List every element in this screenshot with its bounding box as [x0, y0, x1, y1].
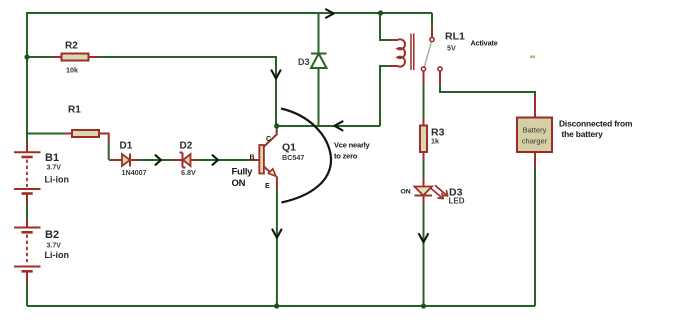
- svg-text:the battery: the battery: [562, 129, 604, 139]
- svg-text:Activate: Activate: [471, 39, 498, 48]
- svg-text:ON: ON: [401, 189, 411, 196]
- svg-text:RL1: RL1: [445, 31, 465, 43]
- svg-text:B: B: [250, 155, 255, 162]
- svg-text:1N4007: 1N4007: [122, 168, 147, 177]
- svg-text:Battery: Battery: [523, 126, 547, 135]
- svg-text:D1: D1: [120, 141, 133, 152]
- svg-text:R2: R2: [65, 41, 78, 52]
- svg-text:B1: B1: [45, 152, 59, 164]
- svg-text:Fully: Fully: [232, 167, 254, 178]
- svg-text:Vce nearly: Vce nearly: [334, 141, 371, 150]
- svg-text:charger: charger: [522, 137, 548, 146]
- svg-text:Li-ion: Li-ion: [45, 175, 70, 185]
- svg-text:R1: R1: [68, 105, 81, 116]
- svg-text:to zero: to zero: [334, 152, 358, 161]
- svg-text:D2: D2: [180, 141, 193, 152]
- svg-text:5V: 5V: [447, 44, 456, 53]
- svg-text:C: C: [266, 136, 271, 143]
- svg-text:1k: 1k: [431, 137, 439, 146]
- svg-text:B2: B2: [45, 229, 59, 241]
- svg-text:3.7V: 3.7V: [47, 165, 62, 172]
- svg-text:LED: LED: [449, 197, 465, 206]
- svg-text:10k: 10k: [66, 66, 78, 75]
- svg-text:E: E: [265, 183, 270, 190]
- svg-text:Li-ion: Li-ion: [45, 250, 70, 260]
- svg-text:BC547: BC547: [282, 153, 304, 162]
- svg-text:ON: ON: [232, 178, 246, 189]
- svg-text:D3: D3: [298, 57, 310, 67]
- svg-text:Disconnected from: Disconnected from: [559, 119, 632, 129]
- svg-text:6.8V: 6.8V: [181, 168, 196, 177]
- svg-text:Q1: Q1: [282, 142, 296, 154]
- svg-text:3.7V: 3.7V: [47, 243, 62, 250]
